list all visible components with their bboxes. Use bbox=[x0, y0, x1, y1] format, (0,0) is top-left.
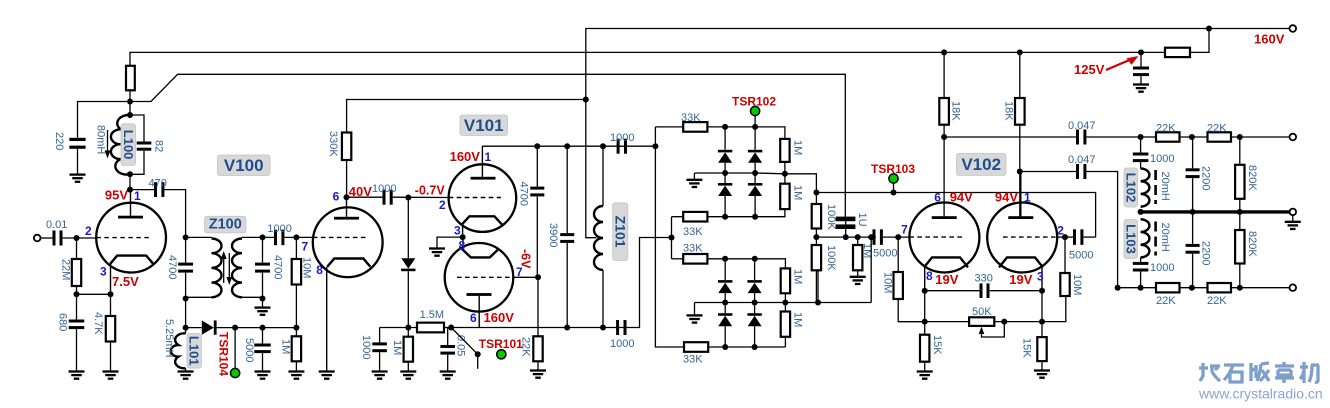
svg-text:3: 3 bbox=[454, 224, 461, 238]
svg-text:50K: 50K bbox=[972, 306, 992, 318]
svg-text:820K: 820K bbox=[1246, 231, 1258, 257]
svg-text:94V: 94V bbox=[995, 190, 1018, 205]
svg-text:V101: V101 bbox=[464, 116, 504, 135]
svg-text:22K: 22K bbox=[1156, 295, 1176, 307]
svg-text:1.5M: 1.5M bbox=[420, 309, 444, 321]
svg-text:L101: L101 bbox=[187, 336, 202, 366]
svg-text:100K: 100K bbox=[825, 204, 837, 230]
svg-text:1000: 1000 bbox=[267, 223, 291, 235]
svg-text:V102: V102 bbox=[961, 155, 1001, 174]
svg-text:18K: 18K bbox=[1003, 101, 1015, 121]
svg-text:1M: 1M bbox=[792, 185, 804, 200]
svg-text:330: 330 bbox=[975, 273, 993, 285]
svg-text:95V: 95V bbox=[105, 188, 128, 203]
svg-text:22M: 22M bbox=[60, 259, 72, 280]
svg-text:33K: 33K bbox=[683, 354, 703, 366]
svg-text:TSR103: TSR103 bbox=[871, 162, 915, 176]
svg-text:7.5V: 7.5V bbox=[112, 274, 139, 289]
svg-text:5.25mH: 5.25mH bbox=[163, 319, 175, 358]
svg-text:1U: 1U bbox=[856, 213, 868, 227]
svg-text:4700: 4700 bbox=[272, 255, 284, 279]
svg-text:TSR104: TSR104 bbox=[217, 332, 231, 376]
svg-text:20mH: 20mH bbox=[1159, 223, 1171, 252]
svg-text:L102: L102 bbox=[1123, 173, 1138, 203]
svg-text:0.01: 0.01 bbox=[46, 219, 67, 231]
svg-text:330K: 330K bbox=[327, 131, 339, 157]
svg-text:680: 680 bbox=[57, 313, 69, 331]
svg-text:8: 8 bbox=[926, 269, 933, 283]
svg-text:Z101: Z101 bbox=[612, 216, 628, 248]
svg-text:L100: L100 bbox=[121, 130, 136, 160]
svg-text:19V: 19V bbox=[1009, 272, 1032, 287]
svg-text:33K: 33K bbox=[683, 243, 703, 255]
svg-text:4700: 4700 bbox=[166, 255, 178, 279]
svg-text:1000: 1000 bbox=[372, 183, 396, 195]
svg-text:6: 6 bbox=[333, 190, 340, 204]
svg-text:7: 7 bbox=[302, 240, 309, 254]
svg-text:4.7K: 4.7K bbox=[92, 312, 104, 335]
svg-text:125V: 125V bbox=[1074, 62, 1105, 77]
svg-text:1000: 1000 bbox=[1150, 153, 1174, 165]
svg-text:8: 8 bbox=[459, 239, 466, 253]
svg-text:1000: 1000 bbox=[610, 338, 634, 350]
svg-text:6: 6 bbox=[934, 191, 941, 205]
svg-text:5000: 5000 bbox=[1069, 250, 1093, 262]
svg-text:2200: 2200 bbox=[1200, 166, 1212, 190]
svg-text:-0.7V: -0.7V bbox=[415, 184, 446, 198]
svg-text:15K: 15K bbox=[931, 335, 943, 355]
svg-text:0.047: 0.047 bbox=[1068, 154, 1096, 166]
svg-text:6: 6 bbox=[470, 311, 477, 325]
svg-text:100K: 100K bbox=[825, 245, 837, 271]
svg-text:TSR102: TSR102 bbox=[732, 95, 776, 109]
svg-text:1000: 1000 bbox=[1150, 262, 1174, 274]
svg-text:1: 1 bbox=[134, 189, 141, 203]
svg-text:3: 3 bbox=[1037, 270, 1044, 284]
svg-text:3: 3 bbox=[100, 265, 107, 279]
svg-text:160V: 160V bbox=[450, 149, 481, 164]
svg-text:160V: 160V bbox=[484, 310, 515, 325]
svg-text:0.047: 0.047 bbox=[1068, 120, 1096, 132]
svg-text:19V: 19V bbox=[935, 272, 958, 287]
svg-text:10M: 10M bbox=[301, 257, 313, 278]
svg-text:0.05: 0.05 bbox=[455, 335, 467, 356]
svg-text:1M: 1M bbox=[792, 312, 804, 327]
svg-text:33K: 33K bbox=[681, 112, 701, 124]
svg-text:10M: 10M bbox=[882, 272, 894, 293]
svg-text:22K: 22K bbox=[1156, 123, 1176, 135]
svg-text:1: 1 bbox=[485, 150, 492, 164]
svg-text:80mH: 80mH bbox=[95, 125, 107, 154]
svg-text:160V: 160V bbox=[1254, 32, 1285, 47]
svg-text:20mH: 20mH bbox=[1159, 172, 1171, 201]
svg-text:15K: 15K bbox=[1021, 338, 1033, 358]
svg-text:1M: 1M bbox=[792, 269, 804, 284]
svg-text:220: 220 bbox=[53, 132, 65, 150]
svg-text:1M: 1M bbox=[391, 340, 403, 355]
svg-text:5000: 5000 bbox=[243, 338, 255, 362]
svg-text:www.crystalradio.cn: www.crystalradio.cn bbox=[1198, 386, 1323, 402]
svg-text:2: 2 bbox=[1057, 224, 1064, 238]
svg-text:TSR101: TSR101 bbox=[479, 337, 523, 351]
svg-text:V100: V100 bbox=[224, 156, 264, 175]
svg-text:1M: 1M bbox=[792, 140, 804, 155]
svg-text:22K: 22K bbox=[1207, 123, 1227, 135]
svg-text:82: 82 bbox=[153, 140, 165, 152]
svg-text:L103: L103 bbox=[1123, 224, 1138, 254]
svg-text:5000: 5000 bbox=[873, 248, 897, 260]
svg-text:22K: 22K bbox=[1207, 295, 1227, 307]
svg-text:1M: 1M bbox=[280, 339, 292, 354]
svg-text:820K: 820K bbox=[1246, 165, 1258, 191]
svg-text:1000: 1000 bbox=[610, 132, 634, 144]
svg-text:2200: 2200 bbox=[1200, 241, 1212, 265]
svg-text:94V: 94V bbox=[950, 190, 973, 205]
svg-text:2: 2 bbox=[439, 198, 446, 212]
svg-text:3900: 3900 bbox=[547, 223, 559, 247]
svg-text:1000: 1000 bbox=[360, 335, 372, 359]
svg-text:10M: 10M bbox=[1071, 274, 1083, 295]
svg-text:1: 1 bbox=[1024, 191, 1031, 205]
svg-text:7: 7 bbox=[516, 265, 523, 279]
svg-text:470: 470 bbox=[149, 178, 167, 190]
svg-text:4700: 4700 bbox=[518, 182, 530, 206]
svg-text:18K: 18K bbox=[950, 101, 962, 121]
svg-text:7: 7 bbox=[901, 223, 908, 237]
svg-text:2: 2 bbox=[85, 224, 92, 238]
svg-text:Z100: Z100 bbox=[209, 217, 242, 233]
svg-text:33K: 33K bbox=[683, 226, 703, 238]
